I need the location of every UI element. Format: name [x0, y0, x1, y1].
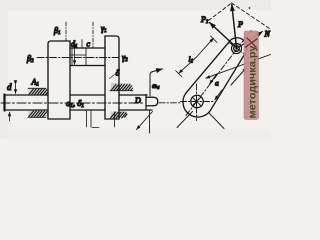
diagonal leader from big end lower-left (spoke extension) [177, 112, 193, 128]
long shallow arrow pointing at link edge [206, 55, 271, 79]
right support hatch below shaft [111, 112, 128, 118]
left support baseline top [28, 87, 46, 89]
right support hatch above shaft [111, 85, 133, 91]
dashed parallelogram side left [209, 3, 232, 21]
pin axis dash-dot to big wheel [159, 102, 182, 104]
pin left vertical [145, 95, 147, 111]
leader dash-dot at x66 [65, 22, 67, 41]
omega rotation arrow at shaft end [150, 69, 163, 96]
separator between d1 and c labels [81, 40, 83, 49]
svg-text:c: c [87, 40, 91, 49]
hatch underlays [29, 89, 48, 96]
vertical line down from shaft end [149, 110, 151, 133]
small arrow below left shaft end [9, 112, 11, 121]
left support baseline bottom [28, 116, 46, 118]
extension line below left [90, 110, 92, 127]
main shaft axis dash-dot [1, 102, 143, 104]
link length dimension line [179, 58, 196, 74]
svg-text:a: a [215, 79, 219, 88]
watermark dark X marks over band top [245, 38, 258, 48]
svg-text:d: d [7, 82, 12, 92]
big end vertical crosshair [196, 84, 198, 121]
spoke extension lower-right [209, 113, 225, 129]
watermark pink band [244, 31, 259, 120]
stray dot [249, 7, 251, 9]
right column (disc) outline [105, 36, 119, 119]
small end pin circle [232, 44, 242, 54]
extension line below left 2 [86, 111, 88, 127]
shaft right pin top [146, 96, 153, 98]
big end hub circle with spokes [191, 95, 203, 107]
small arrow on axis for dimension a [210, 74, 217, 84]
dimension end tick upper [211, 36, 218, 43]
bridge inner line [70, 54, 86, 56]
bridge inner verticals [72, 48, 86, 66]
svg-text:P: P [237, 20, 243, 29]
left column (disc) outline [48, 41, 70, 119]
left support hatch above shaft [29, 89, 48, 95]
parallelogram closing side through band [239, 32, 263, 48]
extension line below right [114, 112, 116, 127]
pin rounded end [153, 97, 158, 106]
big end horizontal crosshair [181, 101, 214, 103]
dimension dash bottom [92, 127, 99, 129]
small end perpendicular crosshair [229, 42, 249, 58]
dimension end tick lower [176, 71, 183, 78]
diagonal arrow at shaft end pointing down-left [137, 112, 153, 130]
bridge top line [70, 47, 105, 49]
leader dash-dot at x93 [92, 22, 94, 48]
svg-text:δ: δ [116, 69, 120, 78]
vector P vertical [232, 5, 237, 48]
dashed parallelogram side right extended [232, 3, 270, 29]
shaft right pin bottom [146, 105, 153, 107]
link axis dash-dot extended [186, 31, 251, 116]
upper centerline dash-dot [37, 57, 121, 59]
small arrow pointing at rim of big end [215, 90, 222, 100]
left support hatch below shaft [29, 111, 48, 117]
svg-text:D: D [134, 96, 141, 105]
shaft top line [5, 94, 148, 96]
small vertical dimension arrows under d1 [74, 50, 76, 65]
svg-text:методичка.ру: методичка.ру [247, 45, 258, 118]
right support baseline top [110, 90, 133, 92]
shaft left end cap [3, 95, 5, 111]
short diagonal arrow near band lower [231, 68, 247, 86]
svg-text:N: N [264, 30, 271, 39]
bridge bottom line [70, 65, 105, 67]
shaft bottom line [5, 109, 153, 111]
link body outline (stadium) [183, 38, 247, 117]
vector P1 up-left [210, 23, 237, 48]
